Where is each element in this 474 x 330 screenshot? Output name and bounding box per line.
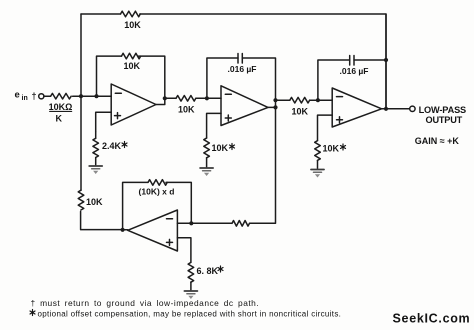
op-amp U1 bbox=[111, 84, 156, 125]
label R12 6.8K* bbox=[197, 266, 224, 276]
wire: R5 top stub and to ground bbox=[95, 132, 97, 165]
svg-text:† must return to ground via lo: † must return to ground via low-impedanc… bbox=[31, 298, 260, 308]
label R9 10K* bbox=[323, 144, 346, 154]
wire: left branch vertical (top bus to damping amp) bbox=[81, 14, 123, 230]
wire: U2 output to node C bbox=[268, 106, 276, 108]
resistor R6 10K (U1 to U2) bbox=[176, 96, 196, 102]
wire: U2 noninverting input to R7 bbox=[207, 113, 221, 138]
wire: U1 noninverting input to R5 bbox=[96, 112, 112, 131]
node: C2 to top bus junction bbox=[384, 58, 388, 62]
output terminal bbox=[410, 106, 415, 111]
label U4 plus bbox=[167, 239, 173, 245]
svg-text:.016 µF: .016 µF bbox=[228, 64, 257, 74]
node F: low-pass output junction bbox=[384, 107, 388, 111]
node D: bandpass takeoff junction bbox=[273, 98, 277, 102]
node: input summing junction bbox=[79, 94, 83, 98]
node H: U4 inverting input junction bbox=[189, 221, 193, 225]
footnote asterisk line bbox=[30, 309, 341, 318]
resistor R12 6.8K (U4 + to ground) bbox=[188, 262, 194, 282]
resistor R3 10K (left branch) bbox=[78, 190, 84, 210]
resistor R9 10K (U3 + to ground) bbox=[315, 141, 321, 161]
node G: U4 output junction bbox=[121, 228, 125, 232]
wire: U4 output stub bbox=[123, 229, 128, 231]
ground G1 bbox=[89, 166, 102, 174]
resistor R11 (damping) bbox=[232, 221, 249, 227]
op-amp U3 bbox=[332, 88, 381, 127]
label e_in dagger bbox=[15, 89, 37, 102]
resistor R8 10K (U2 to U3) bbox=[290, 97, 310, 103]
wire: R12 to ground bbox=[190, 282, 192, 290]
svg-text:2.4K: 2.4K bbox=[102, 141, 122, 151]
wire: U3 noninverting input to R9 bbox=[318, 115, 333, 141]
svg-text:10K: 10K bbox=[292, 107, 309, 117]
svg-text:e: e bbox=[15, 89, 20, 100]
node A: U1 output / feedback junction bbox=[163, 96, 167, 100]
wire: U1 output jog to node A bbox=[156, 98, 165, 104]
label U2 plus bbox=[225, 115, 231, 121]
node E: U3 inverting input junction bbox=[316, 98, 320, 102]
capacitor C2 .016 uF bbox=[350, 56, 354, 66]
resistor R10 (10K)xd (U4 feedback) bbox=[148, 180, 167, 186]
input terminal e_in bbox=[39, 94, 44, 99]
label U3 plus bbox=[337, 117, 343, 123]
label R7 10K* bbox=[212, 143, 235, 153]
wire: feedback loop around U1 bbox=[97, 56, 165, 98]
svg-text:10K: 10K bbox=[124, 20, 141, 30]
resistor R2 10KΩ/K (input) bbox=[51, 93, 72, 99]
wire: (10K)xd feedback loop around U4 bbox=[123, 182, 192, 229]
resistor R5 2.4K (U1 + to ground) bbox=[93, 138, 99, 157]
svg-text:10K: 10K bbox=[86, 197, 103, 207]
svg-text:optional offset compensation,: optional offset compensation, may be rep… bbox=[38, 309, 342, 318]
svg-text:10K: 10K bbox=[323, 144, 340, 154]
ground G2 bbox=[200, 168, 213, 176]
label U1 minus bbox=[115, 92, 121, 94]
ground G4 bbox=[184, 291, 197, 299]
wire: R9 to ground bbox=[317, 160, 319, 168]
wire: input to summing node bbox=[44, 95, 111, 97]
label U4 minus bbox=[167, 218, 173, 220]
wire: U4 inverting input to node H bbox=[177, 222, 191, 224]
node C: U2 output junction bbox=[273, 105, 277, 109]
svg-text:10K: 10K bbox=[178, 105, 195, 115]
wire: R11 up to U2 output node C bbox=[250, 107, 276, 223]
svg-text:in: in bbox=[22, 95, 28, 102]
svg-text:SeekIC.com: SeekIC.com bbox=[393, 312, 471, 326]
svg-text:10K: 10K bbox=[212, 143, 229, 153]
wire: node A to R6 bbox=[165, 97, 176, 99]
svg-text:†: † bbox=[32, 91, 37, 101]
wire: top feedback bus from left branch to op-amp U3 output bbox=[81, 14, 386, 109]
wire: node D to R8 bbox=[276, 99, 290, 101]
svg-text:10K: 10K bbox=[124, 61, 141, 71]
svg-text:6. 8K: 6. 8K bbox=[197, 266, 219, 276]
label U2 minus bbox=[225, 93, 231, 95]
ground G3 bbox=[311, 170, 324, 178]
svg-text:10KΩ: 10KΩ bbox=[49, 102, 73, 112]
wire: R6 to U2 inverting input bbox=[196, 97, 221, 99]
wire: R7 to ground bbox=[206, 158, 208, 167]
svg-text:K: K bbox=[55, 114, 62, 124]
wire: C2 feedback loop around U3 bbox=[318, 14, 386, 109]
svg-text:(10K) x d: (10K) x d bbox=[139, 186, 175, 196]
wire: U4 noninverting input to R12 bbox=[177, 238, 191, 263]
node: U1 inverting input junction bbox=[94, 94, 98, 98]
label R5 2.4K* bbox=[102, 141, 127, 151]
op-amp U2 bbox=[221, 86, 268, 126]
op-amp U4 (damping, points left) bbox=[128, 210, 178, 251]
node B: U2 inverting input junction bbox=[205, 96, 209, 100]
wire: node H to damping resistor bbox=[191, 222, 232, 224]
label R2 10KΩ over K fraction bbox=[49, 102, 73, 124]
svg-text:.016 µF: .016 µF bbox=[340, 66, 369, 76]
resistor R1 10K (top feedback) bbox=[121, 11, 141, 17]
label LOW-PASS OUTPUT bbox=[419, 105, 466, 125]
capacitor C1 .016 uF bbox=[238, 54, 242, 64]
wire: C1 feedback loop around U2 bbox=[207, 58, 276, 107]
resistor R4 10K (U1 feedback) bbox=[122, 53, 141, 59]
wire: R8 to U3 inverting input bbox=[310, 99, 332, 101]
wire: U3 output to output terminal bbox=[382, 108, 410, 110]
svg-text:GAIN ≈ +K: GAIN ≈ +K bbox=[415, 136, 460, 146]
label U3 minus bbox=[337, 96, 343, 98]
svg-text:OUTPUT: OUTPUT bbox=[426, 115, 463, 125]
label U1 plus bbox=[115, 113, 121, 119]
svg-text:LOW-PASS: LOW-PASS bbox=[419, 105, 466, 115]
resistor R7 10K (U2 + to ground) bbox=[204, 138, 210, 158]
